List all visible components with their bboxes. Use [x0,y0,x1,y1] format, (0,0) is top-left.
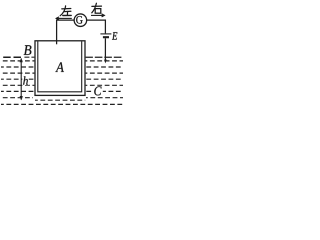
wire right vertical upper [104,20,106,34]
liquid dash row y67 [1,66,123,68]
vessel B white interior [34,40,85,96]
liquid dash row y100 under vessel [35,99,85,101]
liquid surface dashes mid (between h arrow and vessel B) [24,56,35,58]
label B [24,45,32,55]
arrow under 右 pointing right [91,14,104,17]
liquid dash row y85 [1,84,123,86]
electrode tip [104,60,107,64]
label C [94,86,101,95]
wire top right segment [87,19,107,21]
label h [23,76,28,84]
galvanometer G letter [76,16,82,24]
liquid dash row y61 [1,60,123,62]
battery E long plate [100,33,111,35]
arrow under 左 pointing left [56,17,72,20]
wire top left segment [56,19,74,21]
label A [55,62,64,72]
liquid dash row y79 [1,78,123,80]
dimension arrowhead up [20,58,23,62]
liquid dash row y104 bottom [1,103,123,105]
dimension arrowhead down [20,96,23,100]
vessel B outer wall [35,41,85,96]
wire left vertical leg [56,20,58,44]
label E [112,32,117,39]
liquid dash row y97.7 [1,97,123,99]
dimension arrow h line [20,59,22,100]
liquid surface dashes right of vessel [85,56,123,58]
label h backing [22,76,28,86]
liquid dash row y91 [1,90,123,92]
liquid dash row y73 [1,72,123,74]
battery E short plate [103,36,109,38]
liquid surface line left (dimension reference) [3,56,21,58]
block A inner wall [38,42,82,92]
character 右 (right) [92,3,102,13]
galvanometer G circle [74,14,87,27]
label C backing [93,86,102,96]
wire right vertical lower (electrode into liquid) [104,38,106,61]
character 左 (left) [60,6,71,16]
